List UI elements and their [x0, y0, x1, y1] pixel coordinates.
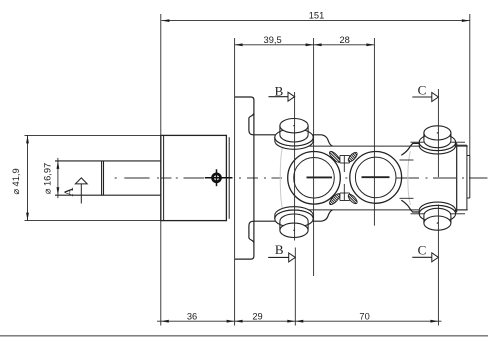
hatched web bottom-left — [328, 192, 341, 206]
svg-text:B: B — [275, 83, 284, 98]
dimension 70 arrow — [430, 320, 438, 323]
section arrow A — [61, 178, 87, 204]
section C top — [412, 82, 438, 177]
bottom dimension chain line — [157, 320, 442, 322]
reservoir boss top-left — [275, 119, 313, 150]
boss cap center dots — [293, 125, 438, 231]
cylinder rear body rectangle — [161, 135, 227, 220]
svg-text:C: C — [418, 82, 427, 97]
svg-text:70: 70 — [359, 311, 369, 321]
bore 2 center mark — [362, 176, 390, 178]
svg-text:28: 28 — [340, 35, 350, 45]
svg-text:A: A — [61, 187, 76, 197]
dimension 29 arrows — [287, 320, 295, 323]
rear body inner left line — [163, 135, 165, 220]
silhouette line (light) left of bore 1 — [280, 147, 282, 209]
bore 1 center mark — [307, 176, 333, 178]
svg-text:⌀ 16,97: ⌀ 16,97 — [43, 163, 53, 194]
dimension 36 arrows — [161, 320, 169, 323]
dimension diameter 16,97 — [57, 158, 59, 198]
mounting point target symbol — [205, 169, 233, 186]
sheet bottom border — [0, 335, 488, 337]
body top profile flange-to-boss — [249, 113, 333, 146]
web block between bores — [340, 156, 350, 201]
centerline axis — [115, 177, 488, 179]
waist lines right of bore 2 — [400, 159, 414, 161]
svg-text:⌀ 41,9: ⌀ 41,9 — [11, 168, 21, 194]
bore circle 2 outer — [350, 152, 402, 204]
mounting flange — [235, 97, 254, 259]
svg-text:151: 151 — [309, 11, 325, 21]
hatched web bottom-right — [347, 193, 359, 205]
dimension diameter 41,9 — [25, 135, 161, 220]
body bottom-right transition — [401, 200, 456, 212]
silhouette line (light) left of right boss — [408, 151, 411, 205]
end plug — [457, 145, 470, 210]
body top-right transition — [401, 143, 456, 155]
body right end face — [456, 143, 458, 212]
reservoir boss bottom-left — [275, 207, 313, 238]
svg-text:B: B — [275, 242, 284, 257]
section C bottom — [412, 205, 438, 326]
rod stub between body and flange — [228, 137, 230, 219]
reservoir boss bottom-right — [411, 202, 466, 230]
barrel rear bottom line — [297, 209, 468, 211]
section B top — [269, 83, 295, 240]
bore circle 1 outer — [288, 152, 341, 205]
svg-text:39,5: 39,5 — [264, 35, 282, 45]
svg-text:36: 36 — [187, 311, 197, 321]
body bottom profile flange-to-boss — [249, 210, 333, 243]
barrel rear top line — [297, 145, 468, 147]
dimension 39,5 — [235, 38, 314, 326]
bore circle 2 inner — [355, 157, 396, 198]
svg-text:29: 29 — [252, 311, 262, 321]
section B bottom — [268, 242, 295, 326]
svg-text:C: C — [418, 243, 427, 258]
reservoir boss top-right — [411, 126, 466, 154]
push rod — [55, 161, 161, 195]
dimension 151 top — [161, 14, 470, 326]
hatched web top-left — [328, 150, 341, 164]
dimension 28 — [314, 38, 375, 226]
bore circle 1 inner — [294, 158, 335, 199]
hatched web top-right — [347, 151, 359, 163]
